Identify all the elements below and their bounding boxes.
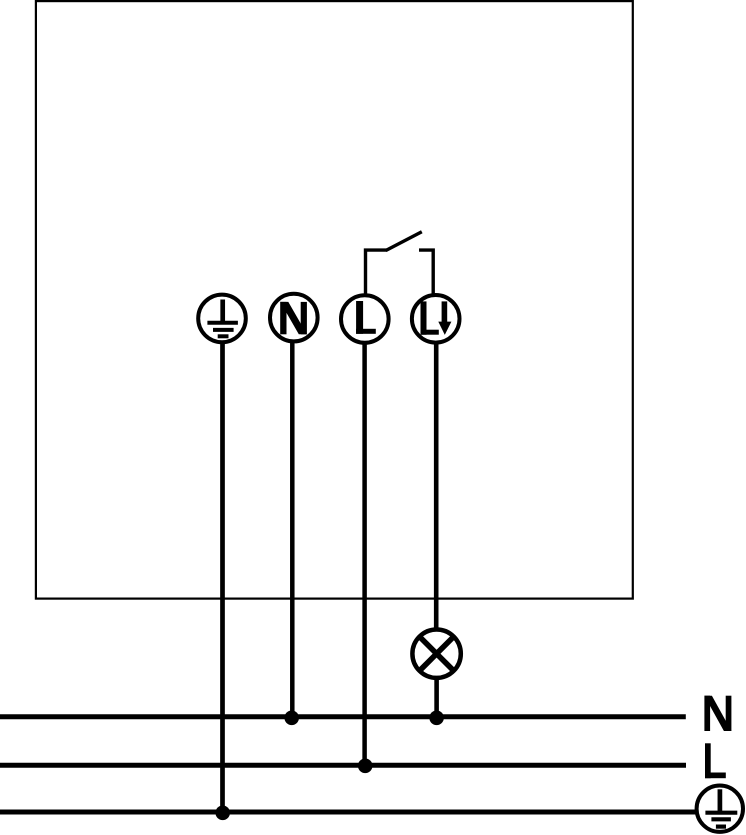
terminal N letter <box>280 302 307 334</box>
wire L terminal to L bus <box>362 343 367 766</box>
terminal N (circle) <box>270 294 318 342</box>
terminal L (circle) <box>341 295 389 343</box>
terminal PE (circle) <box>198 295 246 343</box>
terminal L-load down arrow <box>438 301 451 335</box>
wire lamp to N bus <box>434 677 439 717</box>
PE bus line <box>0 810 697 815</box>
junction dot: lamp wire on N bus <box>429 711 444 726</box>
wire switch right arm to terminal L-load <box>419 250 433 294</box>
label N (bus) <box>704 696 731 731</box>
terminal L-load (circle, switched live) <box>412 295 460 343</box>
wire switch left arm from terminal L <box>366 250 388 294</box>
terminal L-load letter <box>421 301 439 334</box>
junction dot: PE wire on PE bus <box>215 806 230 821</box>
PE earth symbol marks <box>705 789 737 826</box>
wire PE terminal to PE bus <box>220 342 225 812</box>
junction dot: N wire on N bus <box>284 711 299 726</box>
junction dot: L wire on L bus <box>358 759 373 774</box>
device outline <box>36 1 633 599</box>
L bus line <box>0 763 686 768</box>
lamp E1 (circle with X) <box>412 630 460 678</box>
N bus line <box>0 714 686 719</box>
PE symbol at end of PE bus <box>697 786 743 832</box>
label L (bus) <box>705 743 726 778</box>
switch blade S1 <box>386 232 422 251</box>
terminal L letter <box>356 301 376 334</box>
wire L-load terminal to lamp <box>434 343 439 632</box>
wire N terminal to N bus <box>290 342 295 717</box>
PE earth symbol inside terminal <box>207 300 238 337</box>
